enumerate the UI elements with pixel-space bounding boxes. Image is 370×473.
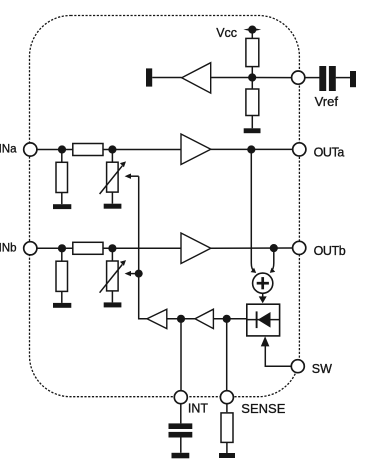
wire: buffer to Vref pin [211,77,292,79]
pin OUTb [293,241,306,254]
wire: A1 output to OUTa pin [211,148,293,150]
svg-text:OUTb: OUTb [314,244,346,258]
ground (R3) [53,204,71,209]
capacitor C1 (Vref decoupling) [319,66,336,91]
variable resistor VR1 (gain control a) [100,150,126,204]
resistor R1 (upper bias) [246,38,259,66]
op-amp A1 (channel a) [181,134,211,165]
terminal bar (Vref external) [350,71,356,87]
junction: control line to VR2 arrow [135,270,143,278]
op-amp A2 (channel b) [181,233,211,264]
svg-text:INT: INT [188,402,209,416]
svg-text:Vref: Vref [315,94,339,109]
wire: SW pin to detector (with arrow) [261,336,292,366]
resistor R6 (INb series) [73,242,103,254]
resistor R4 (INa series) [73,144,103,156]
resistor R5 (INb shunt) [56,248,68,303]
wire: R2 to ground [251,116,253,129]
svg-text:INb: INb [0,242,17,254]
pin SW [291,360,304,373]
arrow: control to VR2 [125,271,139,276]
ground (R7) [219,453,235,458]
junction: OUTa feedback tap [247,145,255,153]
Vcc supply symbol [243,26,261,34]
pin INT [174,391,187,404]
svg-text:Vcc: Vcc [216,26,237,40]
op-amp A4 (feedback buffer, points left) [195,309,213,328]
pin OUTa [293,143,306,156]
pin INa [24,143,37,156]
wire: detector output to feedback buffers [213,318,246,320]
resistor R7 (sense) [221,413,233,443]
op-amp U1 (reference buffer, points left) [182,63,211,93]
pin INb [24,242,37,255]
ground (VR1) [104,204,122,209]
diode D1 (inside detector) [247,311,280,328]
capacitor C2 (integrator) [169,423,193,437]
wire: OUTb tap down to summer (with arrow) [270,252,275,273]
ground (R5) [53,303,71,308]
terminal bar (buffer input) [146,68,152,86]
wire: A4 to A3 [167,318,195,320]
wire: INT tap down to INT pin [180,319,182,391]
arrow: control to VR1 [125,174,139,179]
wire: R7 to ground [226,442,228,453]
resistor R3 (INa shunt) [56,150,68,205]
wire: Vref pin to capacitor [305,77,320,79]
wire: OUTa tap down to summer (with arrow) [251,153,257,273]
svg-text:SENSE: SENSE [241,401,285,416]
wire: SENSE tap down to SENSE pin [226,319,228,391]
junction: INT tap [177,315,185,323]
ground (C2) [172,453,190,459]
wire: INb pin to series resistor [37,247,73,249]
IC package outline (dotted) [30,16,300,397]
pin Vref [292,71,305,84]
wire: C2 to ground [180,438,182,453]
junction node a2 [108,145,116,153]
op-amp A3 (feedback buffer, points left) [147,309,167,328]
junction node b2 [108,244,116,252]
junction: SENSE tap [223,315,231,323]
wire: R4 to amplifier A1 [103,149,181,151]
junction node b1 [58,244,66,252]
junction: OUTb feedback tap [270,244,278,252]
wire: INT pin to capacitor C2 [180,404,182,424]
wire: INa pin to series resistor [37,149,73,151]
resistor R2 (lower bias) [246,89,259,116]
wire: capacitor to terminal [336,77,350,79]
junction node a1 [58,145,66,153]
svg-text:OUTa: OUTa [314,145,345,159]
wire: Vcc dot to R1 [251,34,253,39]
wire: R1 to node through junction to R2 [251,67,253,89]
ground (VR2) [104,302,122,307]
wire: A3 output up the control line [139,176,147,319]
wire: R6 to amplifier A2 [103,247,181,249]
wire: A2 output to OUTb pin [211,247,293,249]
summing node (+) [253,273,273,293]
junction: bias node [248,73,256,81]
wire: SENSE pin to resistor R7 [226,404,228,413]
svg-text:SW: SW [312,362,332,376]
arrow: summer into detector box [259,293,267,303]
detector box U2 [247,304,280,336]
svg-text:INa: INa [0,144,17,156]
ground (bias divider) [244,128,261,133]
wire: terminal to buffer U1 [152,77,182,79]
variable resistor VR2 (gain control b) [100,248,126,302]
pin SENSE [220,391,233,404]
